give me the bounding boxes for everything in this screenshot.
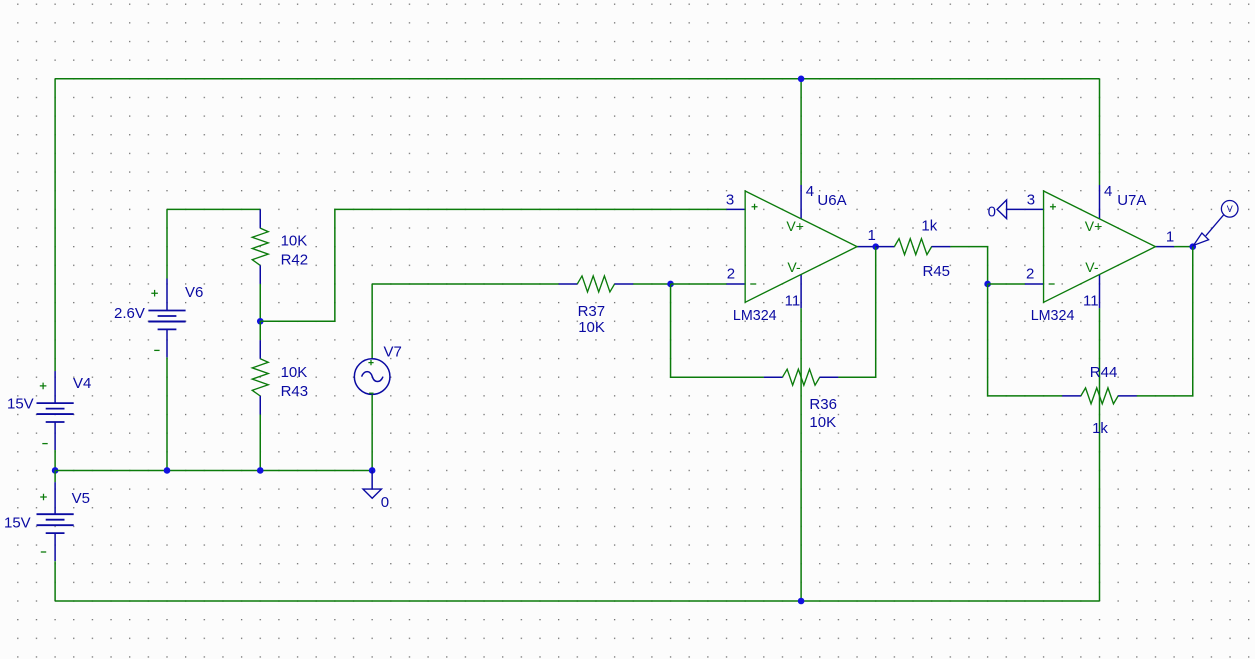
svg-text:2: 2	[727, 266, 735, 283]
wire U7A V+ to top rail	[1099, 79, 1101, 185]
svg-text:1: 1	[1166, 229, 1174, 246]
svg-text:V-: V-	[787, 259, 801, 275]
svg-text:U7A: U7A	[1117, 192, 1146, 209]
svg-text:0: 0	[988, 204, 996, 221]
wire R42 to divider node	[259, 284, 261, 321]
wire U7A V- to bottom rail	[1099, 308, 1101, 601]
op-amp U7A LM324	[1025, 183, 1174, 324]
source V7 sine	[354, 284, 402, 394]
wire R43 to ground rail	[259, 415, 261, 471]
wire R45 to U7A pin2 node	[950, 247, 987, 284]
node divider junction	[257, 318, 264, 325]
svg-text:15V: 15V	[4, 514, 31, 531]
node U6A output	[872, 243, 879, 250]
svg-text:V-: V-	[1085, 259, 1099, 275]
svg-text:V7: V7	[384, 343, 402, 360]
svg-text:V6: V6	[185, 284, 203, 301]
wire V6 bottom to ground rail	[166, 357, 168, 470]
svg-text:11: 11	[785, 293, 801, 310]
wire top power rail V+	[55, 78, 1099, 80]
node V+ rail	[798, 76, 805, 83]
wire V5 to bottom rail	[54, 561, 56, 601]
resistor R42 10K	[252, 209, 308, 284]
svg-text:R36: R36	[809, 396, 837, 413]
battery V5 15V	[4, 470, 90, 561]
node V7 at ground rail	[369, 467, 376, 474]
svg-text:2.6V: 2.6V	[114, 305, 145, 322]
svg-text:4: 4	[1104, 183, 1112, 200]
svg-text:V4: V4	[73, 375, 91, 392]
svg-text:4: 4	[806, 183, 814, 200]
wire U6A feedback left	[671, 284, 764, 377]
wire R37 to feedback node	[633, 283, 670, 285]
svg-text:U6A: U6A	[817, 192, 846, 209]
resistor R37 10K	[559, 276, 634, 336]
svg-text:10K: 10K	[281, 364, 308, 381]
svg-text:V: V	[1227, 204, 1233, 214]
svg-text:11: 11	[1083, 293, 1099, 310]
wire U6A V+ to top rail	[800, 79, 802, 185]
svg-text:2: 2	[1026, 266, 1034, 283]
node ground rail at V4/V5	[52, 467, 59, 474]
wire V7 bottom to ground rail	[371, 394, 373, 470]
wire left rail upper	[54, 79, 56, 371]
wire U6A V- to bottom rail	[800, 308, 802, 601]
resistor R45 1k	[876, 218, 951, 281]
node U6A inverting input	[667, 281, 674, 288]
wire U7A feedback right	[1137, 247, 1193, 396]
wire V7 to R37	[372, 283, 559, 285]
wire V6 top to R42	[167, 208, 260, 210]
op-amp U6A LM324	[726, 183, 876, 324]
node U7A output	[1189, 243, 1196, 250]
battery V6 2.6V	[114, 209, 203, 357]
node U7A inverting input	[984, 281, 991, 288]
node V- rail	[798, 598, 805, 605]
wire U7A output	[1174, 246, 1193, 248]
svg-text:1k: 1k	[1092, 420, 1108, 437]
ground 0 at U7A pin3	[988, 200, 1025, 221]
svg-text:10K: 10K	[281, 232, 308, 249]
svg-text:R43: R43	[281, 383, 309, 400]
svg-text:LM324: LM324	[1031, 308, 1075, 324]
node V6 at ground rail	[164, 467, 171, 474]
svg-text:0: 0	[381, 494, 389, 511]
svg-text:10K: 10K	[809, 414, 836, 431]
node R43 at ground rail	[257, 467, 264, 474]
svg-text:V+: V+	[786, 218, 804, 234]
svg-text:R42: R42	[281, 251, 309, 268]
svg-text:R37: R37	[578, 303, 606, 320]
wire divider node to U6A pin3	[260, 209, 726, 321]
svg-text:1: 1	[868, 227, 876, 244]
wire V4 to ground-rail node	[54, 450, 56, 470]
wire bottom power rail V-	[55, 600, 1099, 602]
ground 0	[363, 470, 389, 511]
wire U6A feedback right	[838, 247, 875, 378]
wire U7A feedback left	[988, 284, 1063, 396]
voltmeter probe V	[1194, 201, 1238, 246]
resistor R44 1k	[1062, 364, 1137, 437]
wire ground rail row	[55, 469, 372, 471]
svg-text:1k: 1k	[921, 218, 937, 235]
svg-text:3: 3	[1027, 192, 1035, 209]
svg-text:15V: 15V	[7, 395, 34, 412]
battery V4 15V	[7, 371, 91, 450]
resistor R43 10K	[252, 321, 308, 414]
svg-text:R45: R45	[923, 263, 951, 280]
svg-text:10K: 10K	[578, 319, 605, 336]
svg-text:3: 3	[726, 192, 734, 209]
svg-text:LM324: LM324	[733, 308, 777, 324]
svg-text:V+: V+	[1085, 218, 1103, 234]
wire node to U7A pin2	[988, 283, 1025, 285]
wire node to U6A pin2	[671, 283, 727, 285]
svg-text:V5: V5	[72, 490, 90, 507]
svg-text:R44: R44	[1090, 364, 1118, 381]
resistor R36 10K	[764, 369, 839, 431]
